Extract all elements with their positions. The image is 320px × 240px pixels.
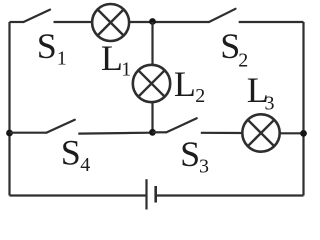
- lamp L1: [92, 4, 129, 41]
- wire S4 to middle node: [78, 132, 152, 135]
- label S3: [180, 134, 209, 177]
- svg-text:2: 2: [238, 50, 248, 72]
- svg-text:S: S: [180, 134, 200, 174]
- wire S2 to top right corner: [239, 21, 304, 23]
- wire L1 to S2 through node: [129, 21, 209, 23]
- label L3: [247, 70, 275, 114]
- battery B1: [147, 179, 156, 209]
- node middle left: [6, 130, 13, 137]
- wire right side rail: [302, 22, 304, 196]
- switch S3: [167, 118, 197, 132]
- svg-text:1: 1: [121, 58, 131, 80]
- svg-text:L: L: [101, 38, 123, 78]
- svg-text:S: S: [61, 133, 81, 173]
- svg-text:1: 1: [57, 48, 67, 70]
- switch S1: [24, 10, 51, 22]
- wire L3 to right node: [280, 132, 304, 134]
- svg-text:S: S: [37, 26, 57, 66]
- wire left node to S4: [10, 132, 47, 134]
- wire top rail corner to S1: [10, 21, 24, 23]
- svg-text:4: 4: [80, 154, 90, 176]
- switch S4: [46, 120, 75, 133]
- switch S2: [209, 9, 236, 22]
- svg-text:S: S: [220, 26, 240, 66]
- label S2: [220, 26, 248, 72]
- svg-text:3: 3: [265, 93, 275, 115]
- wire L2 to middle node: [151, 102, 153, 133]
- node middle junction: [149, 129, 156, 136]
- label S1: [37, 26, 67, 70]
- node middle right: [300, 130, 307, 137]
- lamp L2: [133, 65, 170, 102]
- wire S3 to L3: [201, 132, 243, 134]
- wire bottom rail right: [156, 194, 304, 196]
- wire left side rail: [8, 22, 10, 196]
- label S4: [61, 133, 90, 177]
- wire node to L2: [151, 22, 153, 65]
- lamp L3: [242, 114, 279, 151]
- svg-text:3: 3: [199, 155, 209, 177]
- label L2: [174, 64, 205, 107]
- wire S1 to L1: [54, 21, 93, 23]
- label L1: [101, 38, 131, 80]
- wire middle node to S3: [153, 131, 167, 133]
- wire bottom rail left: [10, 194, 147, 196]
- svg-text:L: L: [174, 64, 196, 104]
- svg-text:2: 2: [195, 85, 205, 107]
- node top junction: [149, 18, 156, 25]
